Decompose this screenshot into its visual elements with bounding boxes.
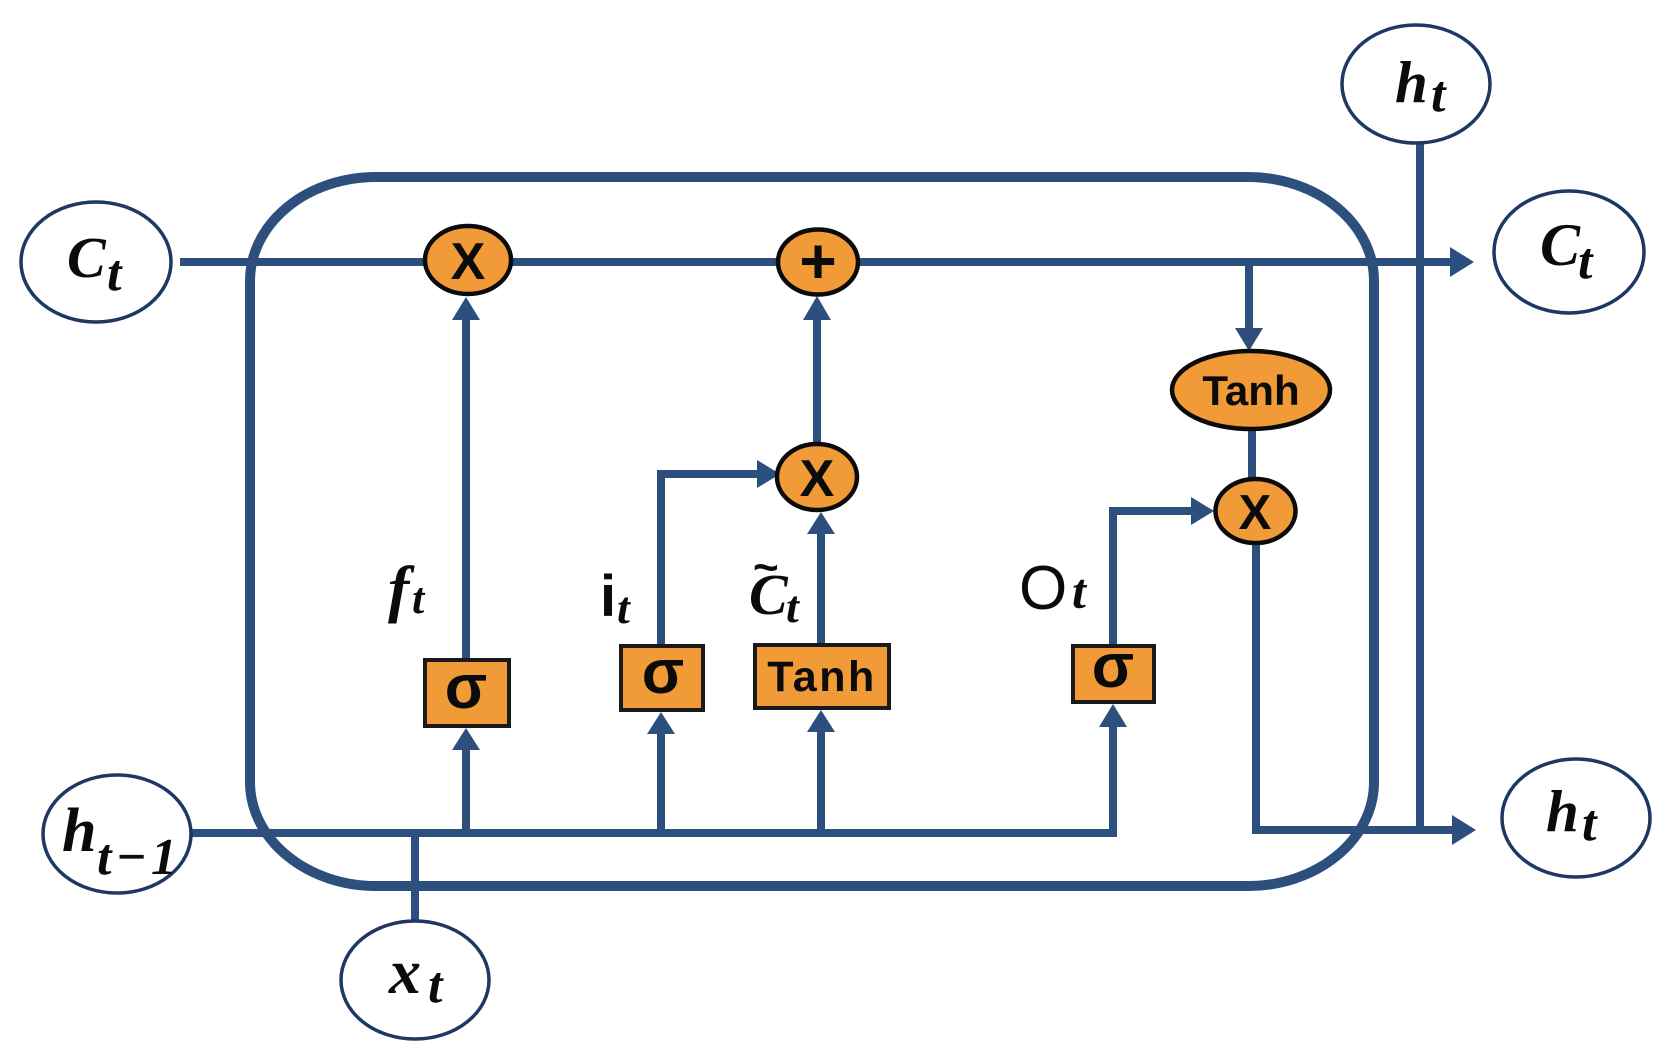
svg-text:t: t: [1431, 66, 1447, 123]
wire: multiply X2 up to add node: [813, 320, 821, 444]
node xt input circle (bottom): [341, 921, 489, 1039]
svg-text:i: i: [600, 564, 616, 629]
arrowhead into multiply X1: [452, 297, 480, 320]
multiply node X2 (input): [777, 444, 857, 510]
arrowhead up into sigma O gate: [1099, 704, 1127, 727]
svg-text:σ: σ: [1092, 632, 1134, 701]
wire: sigma f gate up to multiply X1: [462, 320, 470, 660]
svg-text:h: h: [1546, 778, 1579, 844]
svg-text:X: X: [451, 233, 486, 291]
Tanh ellipse (output activation): [1172, 351, 1330, 429]
node ht output circle (bottom right): [1502, 759, 1650, 877]
arrowhead into sigma f gate: [452, 728, 480, 750]
Tanh box (candidate gate): [755, 645, 889, 708]
svg-text:t: t: [1582, 795, 1598, 852]
svg-text:t: t: [412, 574, 426, 623]
arrowhead into Tanh ellipse: [1235, 328, 1263, 351]
arrowhead into multiply X2 (from below): [807, 512, 835, 534]
sigma box f gate: [425, 660, 509, 726]
svg-text:σ: σ: [445, 653, 487, 722]
node Ct output circle (right): [1494, 191, 1644, 313]
wire: branch from cell-state line down to Tanh ellipse: [1245, 262, 1253, 328]
node h(t-1) input circle (bottom left): [43, 775, 191, 893]
wire: riser to Tanh gate box: [817, 732, 825, 833]
svg-text:t: t: [786, 581, 800, 632]
svg-text:t: t: [617, 582, 631, 633]
svg-text:σ: σ: [642, 638, 684, 707]
wire: riser to sigma f gate: [462, 750, 470, 833]
svg-text:O: O: [1019, 554, 1067, 623]
arrowhead into right Ct node: [1450, 247, 1474, 277]
arrowhead into add node: [803, 296, 831, 320]
arrowhead into right ht node: [1452, 815, 1476, 845]
svg-text:X: X: [800, 450, 835, 508]
svg-text:X: X: [1239, 486, 1272, 540]
wire: riser to sigma i gate: [657, 734, 665, 833]
wire: multiply X3 down then right (ht output line): [1256, 542, 1453, 830]
wire: hidden-state line h(t-1) (horizontal, bottom): [191, 727, 1113, 833]
svg-text:x: x: [388, 936, 421, 1007]
add node +: [778, 230, 858, 295]
LSTM cell boundary (rounded rectangle): [250, 177, 1374, 886]
svg-text:t−1: t−1: [97, 829, 181, 886]
arrowhead into multiply X2 (from left): [757, 460, 780, 488]
node ht output circle (top right): [1342, 25, 1490, 143]
arrowhead into Tanh gate box: [807, 710, 835, 732]
sigma box i gate: [621, 646, 703, 710]
svg-text:t: t: [1578, 233, 1594, 290]
multiply node X1 (forget): [425, 226, 511, 294]
wire: cell-state line Ct (horizontal, top): [180, 258, 1452, 266]
svg-text:C: C: [1540, 212, 1581, 278]
wire: sigma i gate up then right to multiply X2: [661, 474, 757, 647]
svg-text:+: +: [799, 225, 836, 297]
wire: xt riser into h(t-1) line: [411, 829, 419, 922]
wire: Tanh ellipse down to multiply X3: [1248, 429, 1256, 480]
arrowhead into multiply X3 (from left): [1191, 497, 1214, 525]
sigma box O gate: [1073, 646, 1154, 702]
multiply node X3 (output): [1216, 479, 1296, 543]
arrowhead into sigma i gate: [647, 712, 675, 734]
svg-text:Tanh: Tanh: [767, 653, 877, 701]
svg-text:~: ~: [753, 543, 779, 592]
svg-text:t: t: [1072, 563, 1088, 619]
svg-text:C: C: [67, 225, 107, 290]
wire: Tanh gate box up to multiply X2: [817, 534, 825, 645]
svg-text:h: h: [62, 797, 96, 865]
svg-text:t: t: [428, 957, 444, 1014]
svg-text:Tanh: Tanh: [1202, 367, 1299, 414]
svg-text:h: h: [1395, 49, 1428, 115]
wire: ht riser up to top ht node: [1416, 143, 1424, 831]
node Ct input circle (left): [21, 202, 171, 322]
svg-text:t: t: [107, 245, 123, 302]
wire: sigma O gate up then right to multiply X3: [1113, 511, 1191, 647]
